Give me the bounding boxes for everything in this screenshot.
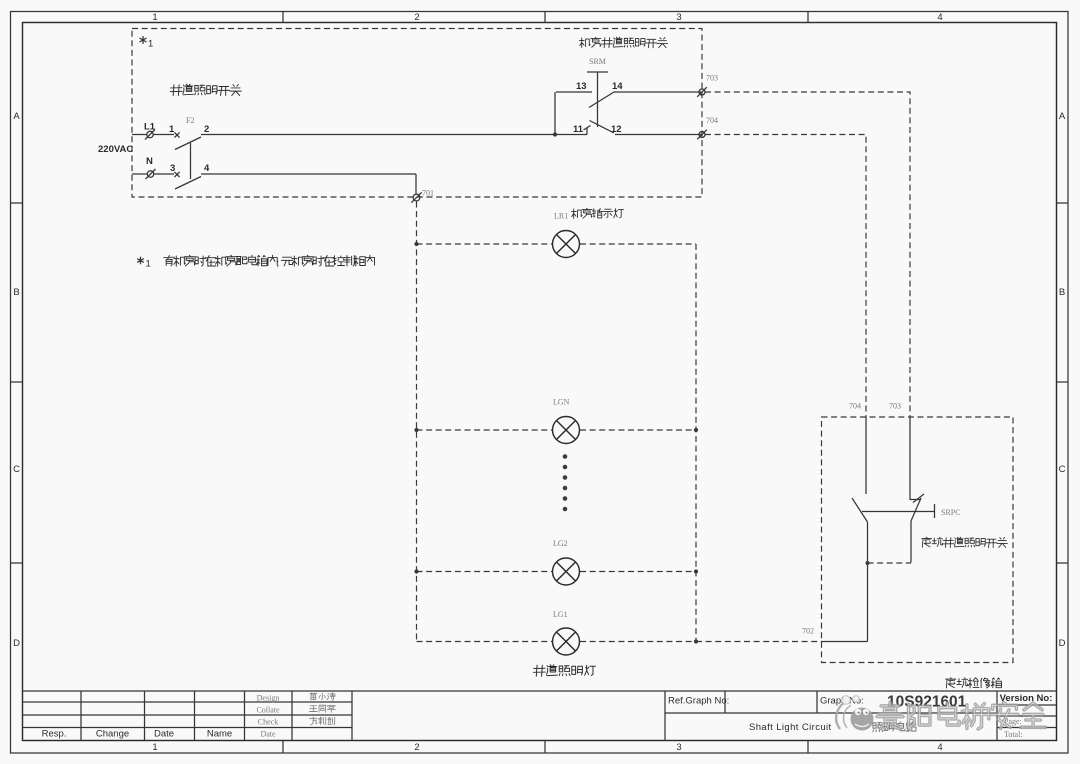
svg-text:Date: Date — [260, 730, 276, 739]
svg-text:C: C — [1059, 464, 1066, 475]
svg-text:Change: Change — [96, 729, 129, 740]
svg-text:4: 4 — [937, 12, 942, 23]
svg-text:Collate: Collate — [256, 706, 280, 715]
svg-text:1: 1 — [152, 742, 157, 753]
svg-text:Version No:: Version No: — [1000, 693, 1053, 704]
svg-text:2: 2 — [414, 742, 419, 753]
svg-text:SRM: SRM — [589, 57, 606, 66]
svg-text:Shaft Light Circuit: Shaft Light Circuit — [749, 722, 832, 733]
svg-text:D: D — [1059, 638, 1066, 649]
svg-text:1: 1 — [148, 39, 153, 50]
svg-text:N: N — [146, 156, 153, 167]
svg-text:1: 1 — [146, 259, 151, 270]
svg-text:2: 2 — [204, 124, 209, 135]
svg-text:2: 2 — [414, 12, 419, 23]
svg-text:702: 702 — [802, 627, 814, 636]
svg-text:LGN: LGN — [553, 398, 570, 407]
svg-text:Check: Check — [258, 718, 278, 727]
svg-text:1: 1 — [169, 124, 175, 135]
svg-text:LG2: LG2 — [553, 539, 568, 548]
svg-text:A: A — [13, 111, 20, 122]
svg-text:B: B — [1059, 287, 1065, 298]
svg-text:;: ; — [277, 258, 280, 269]
svg-text:3: 3 — [676, 742, 681, 753]
svg-text:Name: Name — [207, 729, 232, 740]
svg-text:LR1: LR1 — [554, 212, 568, 221]
svg-text:4: 4 — [937, 742, 942, 753]
svg-text:14: 14 — [612, 81, 623, 92]
svg-text:11: 11 — [573, 124, 584, 135]
svg-text:12: 12 — [611, 124, 622, 135]
svg-text:Total:: Total: — [1004, 730, 1023, 739]
svg-text:703: 703 — [889, 402, 901, 411]
svg-text:4: 4 — [204, 163, 210, 174]
svg-text:D: D — [13, 638, 20, 649]
svg-text:Design: Design — [257, 694, 280, 703]
svg-text:Date: Date — [154, 729, 174, 740]
svg-text:13: 13 — [576, 81, 587, 92]
svg-text:3: 3 — [676, 12, 681, 23]
svg-text:LG1: LG1 — [553, 610, 568, 619]
svg-text:C: C — [13, 464, 20, 475]
svg-text:SRPC: SRPC — [941, 508, 961, 517]
svg-text:220VAC: 220VAC — [98, 144, 133, 155]
svg-text:701: 701 — [422, 189, 434, 198]
svg-text:703: 703 — [706, 74, 718, 83]
svg-text:1: 1 — [152, 12, 157, 23]
svg-text:B: B — [13, 287, 19, 298]
svg-text:Ref.Graph No:: Ref.Graph No: — [668, 696, 729, 707]
svg-text:F2: F2 — [186, 116, 194, 125]
svg-text:704: 704 — [849, 402, 861, 411]
svg-text:704: 704 — [706, 116, 718, 125]
svg-text:A: A — [1059, 111, 1066, 122]
svg-text:Resp.: Resp. — [42, 729, 67, 740]
